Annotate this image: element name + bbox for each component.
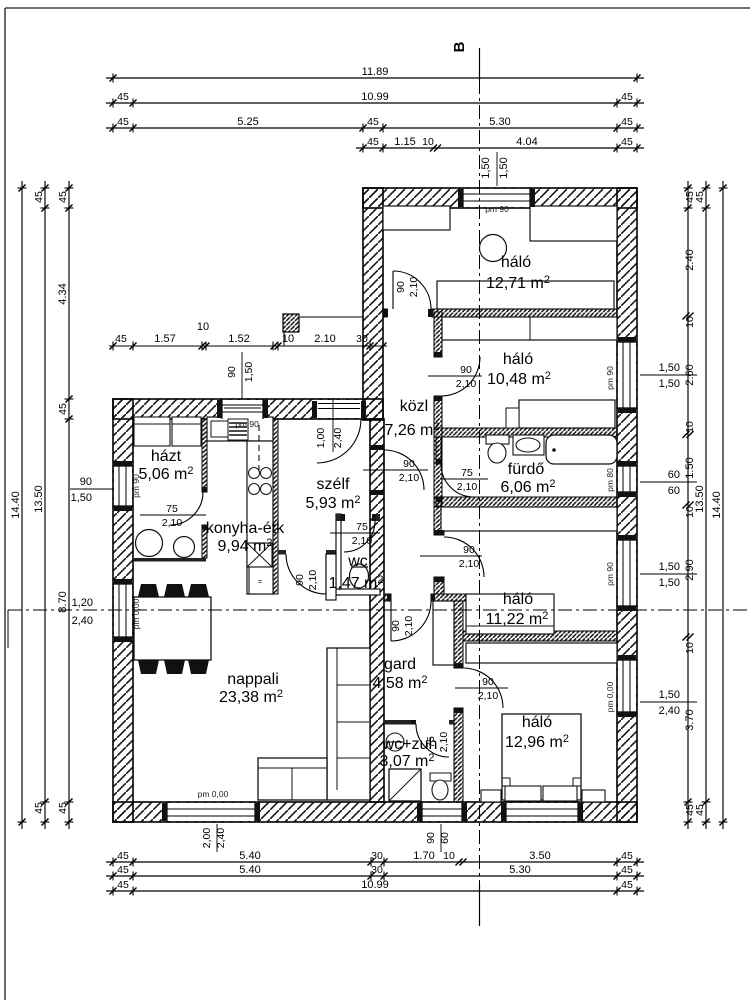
svg-text:11.89: 11.89	[362, 66, 389, 78]
svg-text:szélf: szélf	[317, 476, 350, 493]
svg-text:75: 75	[425, 736, 437, 748]
svg-text:10.99: 10.99	[361, 91, 389, 103]
pm label right window halo10.48	[605, 366, 615, 390]
svg-text:45: 45	[621, 864, 633, 876]
partition gard/wc+zuh with door gap	[384, 720, 454, 725]
svg-text:1,50: 1,50	[659, 378, 680, 390]
svg-text:60: 60	[668, 485, 680, 497]
svg-text:2,10: 2,10	[408, 277, 420, 298]
kitchen sink cabinet X	[247, 543, 272, 567]
jamb blocks hazt door	[202, 487, 207, 530]
svg-text:1.15: 1.15	[394, 136, 415, 148]
svg-text:2,10: 2,10	[403, 616, 415, 637]
gard right wall / wc+zuh right wall with door gap	[454, 601, 463, 802]
door arc: wc door	[344, 521, 375, 552]
door arc: kozl to halo10.48	[441, 357, 480, 396]
svg-text:1,00: 1,00	[315, 428, 327, 449]
svg-text:2,10: 2,10	[162, 517, 183, 529]
dimension line left 14,40	[10, 181, 27, 829]
svg-text:2,00: 2,00	[201, 828, 213, 849]
window left wall hazt (90)	[113, 466, 133, 506]
dimension line left 45|13,50|45	[33, 181, 50, 829]
jamb blocks bottom wall nappali window	[162, 803, 260, 821]
svg-text:45: 45	[621, 91, 633, 103]
svg-text:2,10: 2,10	[478, 690, 499, 702]
entrance door opening in top wall	[312, 400, 366, 418]
svg-text:1,47 m2: 1,47 m2	[328, 574, 383, 592]
horizontal centerline	[8, 610, 747, 648]
svg-text:2,40: 2,40	[332, 428, 344, 449]
svg-text:1,20: 1,20	[72, 597, 93, 609]
jamb blocks gard door	[387, 594, 435, 601]
door label kozl-halo10.48 90/2,10	[428, 364, 482, 390]
svg-text:45: 45	[115, 333, 127, 345]
door arc: szelf to kozl	[384, 450, 424, 490]
door arc: kozl to furdo	[441, 464, 474, 497]
pm label right window halo12.96	[605, 681, 615, 712]
svg-text:45: 45	[117, 879, 129, 891]
door label halo12.96 90/2,10	[455, 676, 508, 702]
door label wc+zuh 75/2,10 rotated	[425, 732, 450, 753]
room label hazt	[138, 448, 193, 483]
halo12.96 nightstands	[481, 790, 605, 802]
kitchen low cabinet	[249, 567, 273, 594]
svg-text:14.40: 14.40	[10, 491, 22, 519]
exterior walls: building bottom wall	[113, 802, 637, 822]
dimension line top 45|5,25|45|5,30|45	[106, 116, 644, 133]
halo11.22 left wall with door gap	[434, 507, 444, 594]
svg-text:pm 0,00: pm 0,00	[131, 598, 141, 629]
svg-text:nappali: nappali	[227, 671, 279, 688]
window bottom wall wc+zuh (90)	[422, 802, 462, 822]
hazt washer circle small	[174, 537, 195, 558]
halo12.96 closet band	[466, 643, 617, 663]
room label nappali	[219, 671, 283, 706]
jamb blocks furdo door	[436, 459, 441, 502]
svg-text:45: 45	[694, 804, 706, 816]
wc toilet glyph	[350, 564, 369, 588]
room label wc+zuh	[379, 736, 437, 770]
svg-text:14.40: 14.40	[711, 491, 723, 519]
svg-text:2,10: 2,10	[456, 378, 477, 390]
exterior walls: left wing top wall	[113, 399, 383, 419]
interior wall konyha/szelf	[273, 419, 278, 594]
exterior walls: right wing top wall	[363, 188, 637, 208]
svg-text:1,50: 1,50	[659, 561, 680, 573]
kitchen wall-cabinet dashed line	[258, 425, 260, 470]
jamb blocks right wall window halo11.22	[618, 535, 636, 611]
svg-text:1,50: 1,50	[243, 362, 255, 383]
dimension line top 45|10,99|45	[106, 91, 644, 108]
room label halo 12.71	[486, 254, 550, 292]
svg-text:12,96 m2: 12,96 m2	[505, 733, 569, 751]
svg-text:90: 90	[425, 832, 437, 844]
svg-text:pm 90: pm 90	[605, 562, 615, 586]
svg-text:10.99: 10.99	[361, 879, 389, 891]
door arc: kozl to halo11.22	[444, 537, 484, 577]
svg-text:5.25: 5.25	[237, 116, 258, 128]
svg-text:90: 90	[226, 366, 238, 378]
gard wardrobe	[433, 601, 454, 665]
svg-text:90: 90	[80, 476, 92, 488]
wc+zuh washbasin circle	[386, 733, 404, 751]
room label konyha-etk	[206, 520, 285, 555]
right window labels 60/60 (furdo)	[640, 469, 697, 497]
svg-text:23,38 m2: 23,38 m2	[219, 688, 283, 706]
door label wc 75/2,10	[330, 521, 380, 547]
dimension line top 45|1,15|10|4,04|45	[356, 136, 644, 153]
svg-text:90: 90	[395, 281, 407, 293]
door label entrance 1,00/2,40 rotated	[315, 398, 344, 452]
jamb blocks kozl/halo10.48 door	[434, 352, 442, 401]
jamb blocks halo11.22 door	[434, 530, 444, 582]
svg-text:45: 45	[621, 136, 633, 148]
svg-text:6,06 m2: 6,06 m2	[500, 478, 555, 496]
partition halo12.71/halo10.48 with door gap	[383, 309, 617, 317]
svg-text:4.04: 4.04	[516, 136, 537, 148]
jamb blocks wc door	[341, 514, 376, 521]
door arc: hazt door	[170, 492, 203, 525]
window in left wing top wall (konyha, 90)	[217, 399, 268, 419]
dimension line right 45|13,50|45	[694, 181, 711, 829]
dimension line bot 45|5,40|30|5,30|45	[106, 864, 644, 881]
pm label right window furdo	[605, 468, 615, 492]
svg-text:1.52: 1.52	[228, 333, 249, 345]
section line B vertical	[451, 41, 480, 926]
room label halo 10.48	[487, 351, 551, 388]
svg-text:8.70: 8.70	[57, 591, 69, 612]
svg-text:2,10: 2,10	[438, 732, 450, 753]
small wall stub left of wc	[326, 554, 336, 600]
partition halo10.48/furdo	[434, 428, 617, 437]
jamb blocks left wall hazt window	[114, 461, 132, 511]
svg-text:2,10: 2,10	[459, 558, 480, 570]
sofa bottom arm	[258, 758, 327, 800]
room label furdo	[500, 461, 555, 496]
exterior walls: right wing left wall upper (45cm)	[363, 188, 383, 420]
left window dim 90/1,50	[70, 476, 113, 504]
window right wall furdo (60)	[617, 466, 637, 492]
svg-text:45: 45	[117, 91, 129, 103]
furdo left wall with door gap	[436, 437, 441, 506]
furdo bathtub	[546, 435, 617, 464]
door label halo11.22 90/2,10	[420, 544, 482, 570]
svg-text:75: 75	[356, 521, 368, 533]
kitchen counter column	[247, 441, 273, 594]
svg-text:90: 90	[482, 676, 494, 688]
kitchen top counter with sink unit	[207, 417, 273, 441]
svg-text:háló: háló	[503, 591, 533, 608]
jamb blocks halo12.96 door	[454, 663, 463, 713]
dining chairs bottom row	[138, 660, 209, 674]
svg-text:háló: háló	[501, 254, 531, 271]
svg-text:5.40: 5.40	[239, 850, 260, 862]
jamb blocks right wall window halo10.48	[618, 337, 636, 413]
exterior walls: right wing right wall	[617, 188, 637, 822]
svg-text:pm 90: pm 90	[485, 204, 509, 214]
wc bottom wall	[336, 589, 380, 595]
svg-text:10: 10	[422, 136, 434, 148]
hazt cabinet 1	[134, 417, 170, 446]
left terrace door dim 1,20/2,40	[72, 597, 93, 627]
chimney symbol above left wing	[283, 314, 363, 346]
svg-text:2,40: 2,40	[659, 705, 680, 717]
hazt cabinet 2	[172, 417, 201, 446]
partition halo11.22/halo12.96	[463, 631, 617, 641]
svg-text:2,10: 2,10	[457, 481, 478, 493]
svg-text:90: 90	[460, 364, 472, 376]
svg-text:1,50: 1,50	[498, 157, 510, 178]
door arc: kozl to halo12.71	[393, 271, 431, 309]
svg-text:5.30: 5.30	[489, 116, 510, 128]
svg-text:1,50: 1,50	[659, 689, 680, 701]
wc+zuh toilet	[430, 773, 451, 800]
wc left wall	[336, 514, 341, 595]
svg-text:45: 45	[621, 850, 633, 862]
svg-text:45: 45	[57, 403, 69, 415]
svg-text:45: 45	[117, 850, 129, 862]
room label gard	[372, 656, 427, 692]
door label hazt 75/2,10	[140, 503, 206, 529]
svg-text:5,06 m2: 5,06 m2	[138, 465, 193, 483]
svg-text:fürdő: fürdő	[508, 461, 545, 478]
halo12.71 closet left	[383, 206, 450, 230]
svg-text:12,71 m2: 12,71 m2	[486, 274, 550, 292]
hazt bottom partition	[133, 558, 206, 562]
svg-text:45: 45	[33, 191, 45, 203]
svg-text:1.57: 1.57	[154, 333, 175, 345]
svg-text:13.50: 13.50	[33, 485, 45, 513]
kitchen pm 90 label	[235, 419, 259, 429]
svg-text:2.40: 2.40	[684, 249, 696, 270]
door label kozl-halo12.71 90/2,10 rotated	[395, 277, 420, 298]
door arc: main entrance into szelf	[317, 404, 361, 464]
svg-text:4.34: 4.34	[57, 283, 69, 304]
room label wc	[328, 553, 383, 592]
svg-text:3.70: 3.70	[684, 709, 696, 730]
svg-text:1.70: 1.70	[413, 850, 434, 862]
svg-text:háló: háló	[503, 351, 533, 368]
left wing top dimension chain 45|1,57|10|1,52|10|2,10|30	[109, 321, 387, 351]
svg-text:45: 45	[33, 802, 45, 814]
svg-text:4,58 m2: 4,58 m2	[372, 674, 427, 692]
svg-text:3,07 m2: 3,07 m2	[379, 752, 434, 770]
door arc: szelf to nappali	[286, 554, 326, 594]
svg-text:házt: házt	[151, 448, 182, 465]
jamb blocks bottom wall halo12.96 window	[501, 803, 583, 821]
halo10.48 bed	[506, 400, 615, 428]
halo10.48 closet band	[442, 317, 617, 340]
svg-text:háló: háló	[522, 714, 552, 731]
svg-text:10: 10	[684, 316, 696, 328]
sofa vertical arm	[327, 648, 370, 800]
svg-text:10: 10	[684, 421, 696, 433]
dining chairs top row	[138, 584, 209, 597]
wall szelf/nappali with door gap	[278, 550, 336, 555]
svg-text:2,40: 2,40	[72, 615, 93, 627]
dimension line left 45|4,34|45|8,70|45	[57, 181, 74, 829]
svg-text:2,10: 2,10	[307, 570, 319, 591]
dimension line right chain	[683, 181, 697, 829]
dimension line right 14.40	[711, 181, 728, 829]
halo11.22 bed	[466, 594, 554, 634]
wc+zuh shower square	[389, 769, 421, 801]
halo11.22 closet band	[441, 507, 617, 531]
kitchen stove burners	[249, 468, 272, 495]
svg-text:közl: közl	[400, 398, 428, 415]
jamb blocks left wall terrace door	[114, 579, 132, 642]
bottom window wc+zuh dims 90/60 rotated	[425, 824, 451, 852]
halo12.71 round table	[480, 235, 507, 262]
door label szelf-kozl 90/2,10	[363, 458, 428, 484]
jamb blocks right wall window halo12.96	[618, 655, 636, 717]
svg-text:11,22 m2: 11,22 m2	[486, 610, 549, 628]
svg-text:B: B	[451, 41, 468, 52]
halo12.96 pillows	[505, 786, 577, 801]
svg-text:90: 90	[294, 574, 306, 586]
pm label left terrace door	[131, 598, 141, 629]
svg-text:75: 75	[461, 467, 473, 479]
halo12.71 desk	[437, 281, 614, 309]
svg-text:10,48 m2: 10,48 m2	[487, 370, 551, 388]
door label furdo 75/2,10	[440, 467, 488, 493]
svg-text:5.40: 5.40	[239, 864, 260, 876]
svg-text:45: 45	[694, 191, 706, 203]
right window labels 1,50/1,50 (halo10.48)	[640, 362, 697, 390]
jamb blocks wc+zuh door	[411, 720, 416, 725]
svg-text:pm 0,00: pm 0,00	[605, 681, 615, 712]
svg-text:pm 80: pm 80	[605, 468, 615, 492]
dimension line top 11.89	[106, 66, 644, 83]
svg-text:90: 90	[463, 544, 475, 556]
hazt washer circle big	[136, 530, 163, 557]
svg-text:10: 10	[684, 642, 696, 654]
svg-text:9,94 m2: 9,94 m2	[217, 537, 272, 555]
wc top wall with door gap	[336, 514, 380, 521]
door arc: gard to halo12.96	[463, 668, 503, 708]
window bottom wall nappali (2.00)	[167, 802, 255, 822]
window in top wall (szelf entrance side pm90)	[463, 188, 530, 208]
jamb blocks szelf-kozl door	[370, 445, 384, 495]
jamb blocks partition halo12.71 door	[383, 309, 433, 317]
svg-text:30: 30	[356, 333, 368, 345]
svg-text:=: =	[258, 579, 262, 586]
svg-text:30: 30	[371, 850, 383, 862]
dimension line bot 45|5,40|30|1,70|10|3,50|45	[106, 850, 644, 867]
svg-text:45: 45	[57, 191, 69, 203]
svg-text:10: 10	[443, 850, 455, 862]
svg-text:5.30: 5.30	[509, 864, 530, 876]
svg-text:60: 60	[668, 469, 680, 481]
svg-text:10: 10	[282, 333, 294, 345]
pm label right window halo11.22	[605, 562, 615, 586]
svg-text:2.90: 2.90	[684, 559, 696, 580]
bottom window nappali dims 2,00/2,40 rotated	[201, 824, 227, 852]
svg-text:45: 45	[57, 802, 69, 814]
svg-text:45: 45	[367, 136, 379, 148]
wall between szelf/kozl and nappali (30cm)	[370, 419, 384, 802]
partition furdo/halo11.22	[434, 497, 617, 507]
window bottom wall halo12.96 (behind bed)	[506, 802, 578, 822]
furdo washbasin	[513, 435, 544, 455]
svg-text:13.50: 13.50	[694, 485, 706, 513]
exterior walls: left wing left wall	[113, 399, 133, 822]
svg-text:gard: gard	[384, 656, 416, 673]
top window dim labels 1,50/1,50	[480, 152, 510, 186]
svg-text:2.10: 2.10	[314, 333, 335, 345]
svg-text:1,50: 1,50	[480, 157, 492, 178]
wall kozl/halo10.48 with door gap	[434, 312, 442, 506]
halo12.96 bed	[502, 714, 581, 800]
window dim arrow inside konyha window	[224, 407, 261, 409]
right window labels 1,50/2,40 (halo12.96)	[640, 689, 697, 717]
jamb blocks right wall window furdo	[618, 461, 636, 497]
window right wall halo10.48 (1.50)	[617, 342, 637, 408]
svg-text:1.50: 1.50	[684, 457, 696, 478]
door label gard 90/2,10 rotated	[390, 616, 415, 637]
pm label left window hazt	[131, 474, 141, 498]
svg-text:1,50: 1,50	[659, 362, 680, 374]
svg-text:wc: wc	[347, 553, 368, 570]
svg-text:1,50: 1,50	[71, 492, 92, 504]
interior wall hazt/konyha with door gap	[202, 419, 207, 558]
svg-text:90: 90	[403, 458, 415, 470]
halo12.71 closet right	[530, 206, 617, 241]
window right wall halo12.96 (1.50)	[617, 660, 637, 712]
door arc: gard to wc+zuh	[416, 724, 449, 757]
room label kozl	[384, 398, 439, 439]
right window labels 1,50/1,50 (halo11.22)	[640, 561, 697, 589]
svg-text:45: 45	[621, 116, 633, 128]
svg-text:45: 45	[621, 879, 633, 891]
svg-text:3.50: 3.50	[529, 850, 550, 862]
svg-text:5,93 m2: 5,93 m2	[305, 494, 360, 512]
jamb blocks bottom wall wc+zuh window	[417, 803, 467, 821]
svg-text:90: 90	[390, 620, 402, 632]
svg-text:2,10: 2,10	[399, 472, 420, 484]
terrace door left wall nappali (1.20)	[113, 584, 133, 637]
pm label bottom window nappali	[198, 789, 229, 799]
room label szelf	[305, 476, 360, 512]
svg-text:75: 75	[166, 503, 178, 515]
svg-text:pm 90: pm 90	[131, 474, 141, 498]
svg-text:45: 45	[367, 116, 379, 128]
svg-text:45: 45	[117, 116, 129, 128]
svg-text:konyha-étk: konyha-étk	[206, 520, 285, 537]
svg-text:pm 0,00: pm 0,00	[198, 789, 229, 799]
svg-text:10: 10	[197, 321, 209, 333]
jamb blocks top window	[458, 189, 535, 207]
furdo toilet	[486, 435, 509, 463]
door arc: kozl to gard	[391, 601, 431, 641]
konyha window sub-dim 90/1,50 rotated	[226, 352, 255, 399]
svg-text:45: 45	[117, 864, 129, 876]
dining table	[134, 597, 211, 660]
gard top wall with door gap	[384, 594, 466, 601]
pm label top window	[485, 204, 509, 214]
room label halo 12.96	[505, 714, 569, 751]
svg-text:pm 90: pm 90	[605, 366, 615, 390]
window right wall halo11.22 (1.50)	[617, 540, 637, 606]
svg-text:2,10: 2,10	[352, 535, 373, 547]
svg-text:1,50: 1,50	[659, 577, 680, 589]
room label halo 11.22	[486, 591, 549, 628]
svg-text:30: 30	[371, 864, 383, 876]
dimension line bot 45|10,99|45	[106, 879, 644, 896]
svg-text:pm 90: pm 90	[235, 419, 259, 429]
door label szelf-nappali 90/2,10 rotated	[294, 570, 319, 591]
svg-text:7,26 m2: 7,26 m2	[384, 421, 439, 439]
